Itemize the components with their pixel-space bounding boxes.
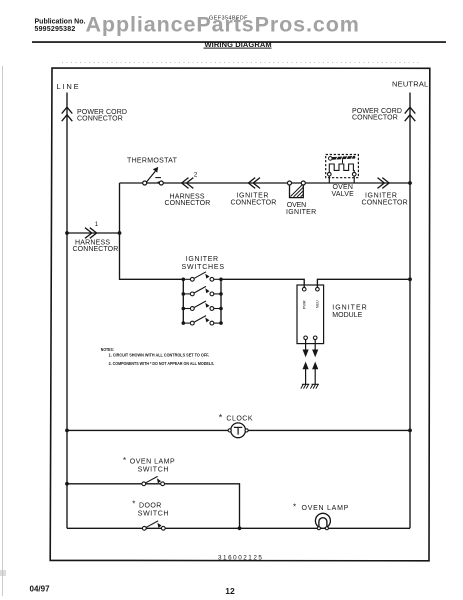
svg-text:*: * bbox=[219, 413, 223, 423]
junction clock row / line rail bbox=[65, 429, 69, 433]
svg-text:OVEN LAMP: OVEN LAMP bbox=[130, 458, 175, 465]
svg-text:CLOCK: CLOCK bbox=[226, 416, 253, 423]
igniter switch row 3 bbox=[182, 301, 223, 310]
scan corner artifact bbox=[0, 570, 6, 576]
igniter switches bank bbox=[183, 279, 221, 323]
spark electrodes (up arrows to burner ground) bbox=[301, 362, 310, 389]
svg-text:04/97: 04/97 bbox=[30, 585, 51, 594]
power cord connector (right) bbox=[405, 107, 416, 121]
svg-text:*: * bbox=[293, 502, 296, 511]
junction lamp branch / bottom bus bbox=[238, 526, 242, 530]
svg-text:12: 12 bbox=[225, 586, 235, 596]
wire bus from igniter module to neutral rail bbox=[317, 279, 410, 287]
svg-text:SWITCHES: SWITCHES bbox=[182, 264, 225, 271]
svg-text:NEU: NEU bbox=[315, 300, 320, 308]
svg-text:IGNITER: IGNITER bbox=[286, 209, 317, 216]
svg-text:VALVE: VALVE bbox=[332, 191, 355, 198]
svg-text:*: * bbox=[123, 456, 126, 465]
igniter module U1 bbox=[297, 285, 324, 344]
junction lamp row / line rail bbox=[65, 482, 69, 486]
svg-text:2: 2 bbox=[194, 172, 198, 179]
oven valve bbox=[326, 155, 359, 199]
svg-text:CONNECTOR: CONNECTOR bbox=[77, 116, 123, 123]
svg-text:5995295382: 5995295382 bbox=[35, 26, 76, 33]
wire bus from switches to igniter module bbox=[221, 279, 304, 287]
svg-text:MODULE: MODULE bbox=[332, 312, 362, 319]
igniter connector (left) bbox=[231, 178, 277, 207]
clock bbox=[219, 413, 253, 438]
junction top bus / neutral rail bbox=[408, 181, 412, 185]
svg-text:316002125: 316002125 bbox=[218, 554, 263, 561]
header rule bbox=[32, 41, 446, 43]
scan edge artifact bbox=[2, 66, 3, 596]
svg-text:1. CIRCUIT SHOWN WITH ALL CONT: 1. CIRCUIT SHOWN WITH ALL CONTROLS SET T… bbox=[109, 353, 210, 359]
svg-text:*: * bbox=[132, 499, 135, 508]
WIRING DIAGRAM title bbox=[204, 40, 272, 49]
wire switches row lead-in bbox=[120, 278, 184, 281]
svg-text:NEUTRAL: NEUTRAL bbox=[392, 80, 428, 89]
svg-text:THERMOSTAT: THERMOSTAT bbox=[127, 158, 178, 165]
oven lamp switch bbox=[123, 456, 175, 485]
svg-text:NOTES:: NOTES: bbox=[101, 347, 114, 353]
publication number header bbox=[35, 19, 86, 34]
svg-text:1: 1 bbox=[95, 221, 99, 228]
igniter switches label bbox=[182, 256, 225, 271]
svg-text:DOOR: DOOR bbox=[139, 502, 162, 509]
svg-text:2. COMPONENTS WITH * DO NOT AP: 2. COMPONENTS WITH * DO NOT APPEAR ON AL… bbox=[109, 361, 215, 367]
wire bottom bus bbox=[67, 527, 410, 529]
igniter switch row 1 bbox=[182, 272, 223, 281]
junction clock row / neutral rail bbox=[408, 429, 412, 433]
svg-text:GEF354BFDF: GEF354BFDF bbox=[209, 16, 248, 22]
svg-text:PWR: PWR bbox=[302, 300, 307, 309]
diagram border box bbox=[50, 68, 430, 561]
notes bbox=[101, 347, 215, 367]
thermostat bbox=[127, 158, 178, 185]
wire top bus bbox=[120, 182, 411, 184]
faint dotted perforation line bbox=[62, 62, 420, 64]
svg-text:CONNECTOR: CONNECTOR bbox=[73, 246, 119, 253]
svg-text:OVEN: OVEN bbox=[333, 184, 354, 191]
harness connector 2 bbox=[165, 172, 211, 207]
svg-text:LINE: LINE bbox=[57, 82, 81, 91]
door switch bbox=[132, 499, 169, 530]
svg-text:IGNITER: IGNITER bbox=[332, 305, 367, 312]
wire oven lamp switch row bbox=[67, 484, 240, 529]
wire vertical from top bus down to switches row bbox=[119, 183, 121, 279]
svg-text:CONNECTOR: CONNECTOR bbox=[362, 199, 408, 206]
svg-text:WIRING DIAGRAM: WIRING DIAGRAM bbox=[205, 40, 272, 49]
svg-text:SWITCH: SWITCH bbox=[138, 467, 170, 474]
igniter module output leads (down arrows) bbox=[303, 340, 319, 358]
harness connector 1 bbox=[65, 221, 121, 253]
svg-text:SWITCH: SWITCH bbox=[138, 511, 169, 518]
oven igniter bbox=[286, 181, 317, 216]
igniter switch row 2 bbox=[182, 286, 223, 295]
power cord connector (left) bbox=[62, 107, 73, 121]
wire clock row bbox=[67, 429, 410, 431]
igniter connector (right) bbox=[362, 178, 408, 207]
wire right rail (NEUTRAL) bbox=[409, 93, 411, 529]
oven lamp bbox=[293, 502, 349, 529]
junction bus / neutral rail bbox=[408, 277, 412, 281]
svg-text:CONNECTOR: CONNECTOR bbox=[165, 200, 211, 207]
svg-text:OVEN: OVEN bbox=[287, 202, 306, 209]
wire left rail (LINE) bbox=[66, 93, 68, 529]
svg-text:OVEN LAMP: OVEN LAMP bbox=[302, 505, 350, 512]
svg-text:CONNECTOR: CONNECTOR bbox=[231, 199, 277, 206]
svg-text:CONNECTOR: CONNECTOR bbox=[352, 115, 398, 122]
svg-text:Publication No.: Publication No. bbox=[35, 19, 86, 26]
svg-text:IGNITER: IGNITER bbox=[186, 256, 219, 263]
igniter switch row 4 bbox=[182, 316, 223, 325]
